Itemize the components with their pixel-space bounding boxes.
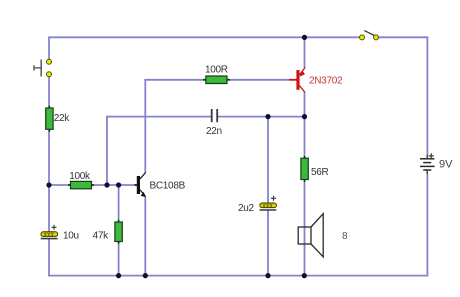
svg-text:47k: 47k — [93, 231, 110, 242]
svg-text:2N3702: 2N3702 — [309, 75, 343, 86]
junction 2u2 bottom rail — [265, 273, 270, 278]
pushbutton cap — [33, 65, 35, 70]
wire 56R to speaker and bottom rail — [304, 179, 306, 276]
svg-text:100R: 100R — [205, 65, 228, 76]
capacitor 2u2 (electrolytic) — [260, 196, 277, 210]
wire 2u2 top (node at 22n line down to cap) — [267, 116, 269, 204]
pushbutton contact bar — [40, 60, 42, 77]
svg-text:9V: 9V — [439, 159, 453, 171]
wire BC108B collector up — [144, 79, 146, 173]
pushbutton stem — [34, 67, 41, 69]
svg-text:56R: 56R — [311, 167, 329, 178]
junction node A (22k/100k/10u) — [46, 182, 51, 187]
wire 2N3702 emitter to top rail — [304, 37, 306, 68]
wire top rail right segment — [378, 36, 429, 38]
wire top rail left segment — [49, 36, 360, 38]
speaker LS1 — [298, 214, 323, 257]
wire 100R right to 2N3702 base (blue part) — [227, 79, 290, 81]
svg-text:10u: 10u — [63, 231, 79, 242]
svg-text:100k: 100k — [69, 171, 91, 182]
wire feedback horizontal to 22n — [106, 116, 211, 118]
svg-text:2u2: 2u2 — [238, 203, 255, 214]
resistor 56R — [304, 156, 306, 182]
wire pushbutton to 22k — [48, 77, 50, 109]
junction speaker bottom rail — [302, 273, 307, 278]
junction emitter bottom rail — [143, 273, 148, 278]
wire node A to 100k — [49, 184, 71, 186]
pushbutton terminal top — [47, 59, 52, 64]
transistor Q1 BC108B — [135, 172, 146, 197]
junction node 22n/2u2 — [265, 114, 270, 119]
resistor 22k — [48, 106, 50, 132]
wire collector corner to 100R — [144, 79, 206, 81]
wire feedback vertical (base node up) — [106, 116, 108, 186]
junction node feedback/base — [104, 182, 109, 187]
wire 10u to bottom rail — [48, 239, 50, 277]
wire node B to 56R — [304, 117, 306, 159]
svg-text:22n: 22n — [206, 126, 222, 137]
wire node A to 10u — [48, 185, 50, 232]
junction node 47k top — [116, 182, 121, 187]
resistor 100R — [203, 79, 230, 81]
pushbutton terminal bottom — [47, 72, 52, 77]
switch S1 lever — [364, 31, 375, 36]
resistor 47k — [118, 220, 120, 244]
wire 100k to BC108B base — [92, 184, 138, 186]
wire 2N3702 collector to node B — [304, 92, 306, 118]
wire 47k bottom — [118, 241, 120, 276]
switch S1 terminal right — [374, 35, 379, 40]
svg-text:8: 8 — [342, 231, 348, 242]
wire 22k to node A — [48, 129, 50, 185]
svg-text:22k: 22k — [54, 113, 71, 124]
wire right rail lower (battery bottom to bottom rail) — [426, 174, 428, 277]
battery B1 9V — [420, 153, 435, 174]
wire bottom rail — [48, 275, 428, 277]
wire 2u2 bottom to rail — [267, 210, 269, 276]
wire left rail top (corner to pushbutton) — [48, 37, 50, 61]
capacitor 22n — [212, 109, 218, 122]
wire 47k top — [118, 185, 120, 223]
wire 22n right to node B — [218, 116, 305, 118]
switch S1 terminal left — [360, 35, 365, 40]
capacitor 10u (electrolytic) — [41, 225, 58, 239]
junction node top rail / 2N3702 emitter — [302, 35, 307, 40]
resistor 100k — [68, 184, 94, 186]
junction 47k bottom rail — [116, 273, 121, 278]
svg-text:BC108B: BC108B — [150, 180, 186, 191]
junction node B (collector/56R) — [302, 114, 307, 119]
wire right rail upper (to battery top) — [426, 37, 428, 156]
wire BC108B emitter down — [144, 197, 146, 276]
transistor Q2 2N3702 (red) — [289, 68, 305, 93]
